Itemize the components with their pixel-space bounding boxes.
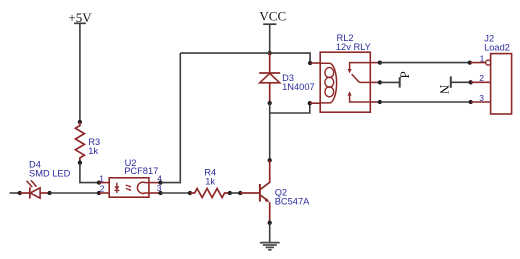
relay right pin stubs [370,62,380,64]
U2 phototransistor [137,182,148,193]
J2 pin 3 stub [471,101,491,103]
svg-text:SMD LED: SMD LED [29,169,71,179]
node R3 bottom [78,161,82,165]
node Q2 collector top [268,158,272,162]
U2 pin 4 stub [149,182,161,184]
relay NC contact [348,63,371,74]
wire terminal N to J2 pin2 [451,81,471,83]
op-to U2 box [109,178,149,197]
resistor R3 [75,122,84,163]
resistor R4 [190,189,230,198]
label Q2 BC547A [275,188,310,207]
connector J2 box [491,54,512,114]
svg-text:1: 1 [480,54,485,64]
node U2 pin2 [97,191,101,195]
wire VCC rail to relay coil top [180,53,310,63]
terminal N [437,76,452,94]
wire D3 to Q2 collector [269,103,271,160]
node U2 pin3 [158,191,162,195]
svg-text:1k: 1k [205,176,215,186]
ground [260,243,280,250]
node R4 left [188,191,192,195]
svg-text:1: 1 [99,174,104,184]
J2 pin 1 circle [486,60,491,65]
svg-text:2: 2 [100,184,105,194]
node J2 pin3 [469,100,473,104]
wire relay NC to J2 pin1 [380,62,470,64]
LED D4 [20,180,50,198]
wire LED to U2 pin 2 [50,192,99,194]
label R3 1k [88,137,100,156]
transistor Q2 [240,160,269,223]
relay coil [320,63,336,103]
svg-text:Load2: Load2 [484,43,510,53]
wire U2 pin3 to R4 [161,192,191,194]
svg-text:VCC: VCC [259,9,286,24]
svg-text:12v RLY: 12v RLY [336,42,371,52]
wire +5V to R3 [79,23,81,122]
node coil bottom [308,101,312,105]
wire U2 pin4 to VCC rail [161,53,181,183]
U2 pin 3 stub [149,192,161,194]
terminal P [397,71,412,87]
U2 pin 2 stub [99,192,109,194]
node Q2 base [238,191,242,195]
wire R4 to Q2 base [230,192,240,194]
svg-text:1N4007: 1N4007 [282,82,315,92]
U2 pin 1 stub [99,182,109,184]
U2 internal LED [114,183,119,193]
label D3 1N4007 [282,73,315,92]
diode D3 [259,53,280,103]
relay switch arm [352,74,371,82]
node J2 pin1 [468,60,472,64]
node coil top [308,61,312,65]
svg-text:PCF817: PCF817 [124,166,158,176]
J2 pin 2 stub [471,81,491,83]
node relay COM [378,80,382,84]
node R3 top [78,120,82,124]
node U2 pin4 [158,180,162,184]
svg-text:3: 3 [479,93,484,103]
svg-text:BC547A: BC547A [275,197,310,207]
wire relay NO to J2 pin3 [380,101,471,103]
node Q2 emitter [268,221,272,225]
node D3 anode [268,101,272,105]
U2 light arrows [126,185,132,191]
wire Q2 emitter to ground [269,223,271,243]
relay RL2 box [320,52,370,112]
node J2 pin2 [469,80,473,84]
svg-text:2: 2 [479,73,484,83]
label R4 1k [204,168,216,187]
label U2 PCF817 [124,158,158,176]
node U2 pin1 [97,180,101,184]
label D4 SMD LED [29,160,71,179]
relay NO contact [348,91,371,102]
node VCC junction [268,51,272,55]
node LED cathode [18,191,22,195]
power VCC [259,9,286,25]
wire R3 to U2 pin 1 [80,163,99,183]
label RL2 12v RLY [336,33,371,52]
node R4 right [228,191,232,195]
node relay NO [378,100,382,104]
svg-text:P: P [397,71,412,78]
wire relay COM to terminal P [380,81,400,83]
node relay NC [378,60,382,64]
wire to relay coil bottom [270,103,310,113]
J2 pin 1 stub [470,62,486,64]
svg-text:1k: 1k [88,146,98,156]
node LED anode [47,191,51,195]
svg-text:N: N [437,85,452,95]
relay coil pin stubs [310,62,320,64]
power +5V [68,10,92,25]
wire input left [10,192,20,194]
wire VCC stem [269,24,271,53]
label J2 Load2 [484,33,510,52]
